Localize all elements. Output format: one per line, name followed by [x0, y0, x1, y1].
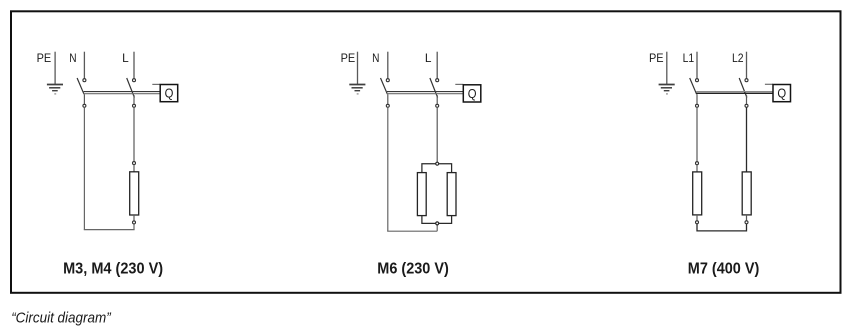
ground symbol (circuit 3)	[659, 85, 675, 94]
svg-text:M6 (230 V): M6 (230 V)	[377, 260, 449, 277]
svg-text:M3, M4 (230 V): M3, M4 (230 V)	[63, 260, 163, 277]
svg-text:Q: Q	[468, 86, 477, 101]
wire N down (circuit 1)	[83, 107, 85, 229]
wire N feed (circuit 1)	[83, 52, 85, 79]
linkage double line to Q (circuit 3)	[696, 92, 773, 94]
wire PE feed (circuit 1)	[54, 52, 56, 85]
wire bottom (circuit 3)	[697, 224, 747, 231]
switch L (circuit 2)	[430, 78, 439, 107]
svg-text:L: L	[122, 51, 129, 65]
svg-text:L2: L2	[732, 51, 744, 65]
svg-text:N: N	[372, 51, 379, 65]
heater element right (circuit 2)	[447, 173, 456, 216]
switch unit Q (circuit 1)	[152, 84, 177, 101]
junction node bottom (circuit 2)	[436, 222, 439, 225]
heater element right (circuit 3)	[742, 172, 751, 224]
top bar of parallel pair (circuit 2)	[422, 164, 452, 173]
wire PE feed (circuit 3)	[666, 52, 668, 85]
wire L1 down (circuit 3)	[696, 107, 698, 161]
switch L2 (circuit 3)	[739, 78, 748, 107]
ground symbol (circuit 2)	[349, 85, 365, 94]
svg-text:Q: Q	[165, 86, 174, 101]
switch N (circuit 1)	[77, 78, 86, 107]
svg-text:PE: PE	[37, 51, 52, 65]
wire L feed (circuit 1)	[133, 52, 135, 79]
svg-text:PE: PE	[341, 51, 356, 65]
junction node top (circuit 2)	[436, 162, 439, 165]
ground symbol (circuit 1)	[47, 85, 63, 94]
switch unit Q (circuit 3)	[765, 84, 791, 101]
switch unit Q (circuit 2)	[455, 84, 481, 102]
heater element R (circuit 1)	[130, 162, 139, 224]
switch L (circuit 1)	[127, 78, 136, 107]
wire N down (circuit 2)	[387, 107, 389, 231]
wire PE feed (circuit 2)	[357, 52, 359, 85]
heater element left (circuit 2)	[417, 173, 426, 216]
svg-text:L: L	[425, 51, 432, 65]
wire L down (circuit 2)	[436, 107, 438, 162]
wire N feed (circuit 2)	[387, 52, 389, 79]
wire bottom to junction (circuit 2)	[387, 230, 437, 232]
wire L1 feed (circuit 3)	[696, 52, 698, 79]
switch L1 (circuit 3)	[690, 78, 699, 107]
linkage double line to Q (circuit 2)	[387, 92, 463, 94]
wire L feed (circuit 2)	[436, 52, 438, 79]
svg-text:Q: Q	[777, 86, 786, 101]
svg-text:“Circuit diagram”: “Circuit diagram”	[11, 310, 111, 327]
svg-text:L1: L1	[683, 51, 695, 65]
switch N (circuit 2)	[381, 78, 390, 107]
wire L down (circuit 1)	[133, 107, 135, 161]
bottom bar of parallel pair (circuit 2)	[422, 216, 452, 224]
wire bottom (circuit 1)	[84, 229, 135, 231]
svg-text:N: N	[69, 51, 76, 65]
heater element left (circuit 3)	[693, 162, 702, 224]
wire L2 down (circuit 3)	[746, 107, 748, 172]
svg-text:M7 (400 V): M7 (400 V)	[688, 260, 760, 277]
wire L2 feed (circuit 3)	[746, 52, 748, 79]
linkage double line to Q (circuit 1)	[84, 92, 161, 94]
svg-text:PE: PE	[649, 51, 664, 65]
